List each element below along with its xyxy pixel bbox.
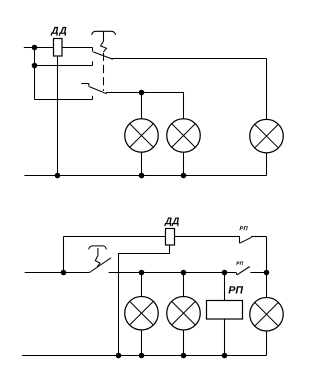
lamp EL5 xyxy=(167,296,201,330)
lamp EL1 top xyxy=(125,119,159,153)
label DD2 xyxy=(164,218,179,227)
lamp EL4 xyxy=(125,296,159,330)
wire bottom rail lower circuit xyxy=(22,355,267,357)
wire right drop to lamp EL3 xyxy=(266,59,268,120)
wire top feed xyxy=(24,47,54,49)
node junction dot main-left xyxy=(61,270,67,276)
wire DD2 right to RP contact 1 xyxy=(175,236,240,238)
switch SA2 manual handle xyxy=(89,246,107,250)
node junction dot relay coil tap xyxy=(222,270,228,276)
wire 2 to switch throw xyxy=(35,65,93,67)
node junction dot left-top xyxy=(32,45,38,51)
node rail dot at DD1 drop xyxy=(55,173,61,179)
wire lamp EL6 bottom xyxy=(266,331,268,355)
wire main after switch xyxy=(109,272,237,274)
switch SA1 manual handle xyxy=(92,31,116,35)
wire drop to lamp EL4 xyxy=(141,273,143,297)
switch SA1 mechanical link dashed xyxy=(103,53,105,91)
wire output 1 to right xyxy=(111,58,267,60)
wire lamp EL1 bottom xyxy=(141,152,143,175)
node junction dot lamp EL6 feed xyxy=(264,270,270,276)
switch SA1 handle stem xyxy=(103,31,105,41)
node rail dot relay coil xyxy=(222,353,228,359)
wire left vertical xyxy=(34,48,36,100)
wire left vertical up xyxy=(63,237,65,273)
label DD1 xyxy=(51,27,67,36)
node rail dot DD2 neutral xyxy=(116,353,122,359)
lamp EL2 top xyxy=(167,119,201,153)
relay contact RP1 pivot tick xyxy=(239,237,241,244)
wire bottom rail top circuit xyxy=(24,175,266,177)
node junction dot left-mid xyxy=(32,63,38,69)
wire RP2 output xyxy=(250,272,266,274)
wire DD2 bottom elbow xyxy=(119,245,170,356)
switch SA2 handle stem xyxy=(97,248,99,256)
relay contact RP2 blade xyxy=(237,267,250,275)
switch SA1 throw tick up xyxy=(92,61,94,65)
wire drop to relay coil xyxy=(224,273,226,301)
wire relay coil bottom xyxy=(224,319,226,356)
wire top branch to DD2 xyxy=(64,236,166,238)
switch SA1 blade 1 xyxy=(93,52,113,59)
node rail dot lamp EL2 xyxy=(181,173,187,179)
relay contact RP1 blade xyxy=(240,237,252,243)
wire DD1 bottom drop to rail xyxy=(57,56,59,176)
switch SA2 linkage zigzag xyxy=(95,255,100,266)
wire drop to lamp EL6 xyxy=(266,273,268,298)
label RP contact 2 xyxy=(236,262,243,265)
switch SA1 contact2 stub tick down xyxy=(88,84,90,87)
node rail dot lamp EL5 xyxy=(181,353,187,359)
wire drop to lamp EL5 xyxy=(183,273,185,297)
wire main feed left xyxy=(25,272,90,274)
node junction dot lamp EL4 xyxy=(139,270,145,276)
node rail dot lamp EL1 xyxy=(139,173,145,179)
node junction dot lamp EL5 xyxy=(181,270,187,276)
switch SA1 contact 1 pivot tick xyxy=(92,48,94,52)
wire drop to lamp EL2 xyxy=(183,93,185,119)
switch SA2 blade xyxy=(90,258,112,273)
label RP contact 1 xyxy=(240,226,248,230)
wire lamp EL2 bottom xyxy=(183,152,185,175)
lamp EL6 xyxy=(250,298,284,332)
relay contact RP2 pivot tick xyxy=(235,273,238,275)
wire drop to lamp EL1 xyxy=(141,93,143,119)
label RP coil xyxy=(228,286,243,293)
switch SA1 contact 2 upper stub xyxy=(81,83,89,85)
switch SA1 blade 2 xyxy=(89,87,107,94)
wire RP1 drop to node xyxy=(266,237,268,273)
wire lamp EL3 bottom xyxy=(266,153,268,176)
wire RP1 output xyxy=(251,236,266,238)
lamp EL3 top xyxy=(250,119,284,153)
switch SA1 contact2 lower tick up xyxy=(92,96,94,100)
wire lamp EL4 bottom xyxy=(141,330,143,356)
relay coil RP box xyxy=(207,301,243,320)
sensor DD2 box xyxy=(166,229,175,246)
wire bottom-left to contact 2 xyxy=(35,99,93,101)
sensor DD1 box xyxy=(54,39,63,57)
wire lamp EL5 bottom xyxy=(183,330,185,356)
switch SA1 linkage zigzag xyxy=(101,41,107,52)
node junction dot output2 lamp1 xyxy=(139,90,145,96)
node rail dot lamp EL4 xyxy=(139,353,145,359)
wire DD1 right to switch xyxy=(62,47,93,49)
wire output 2 xyxy=(106,92,184,94)
